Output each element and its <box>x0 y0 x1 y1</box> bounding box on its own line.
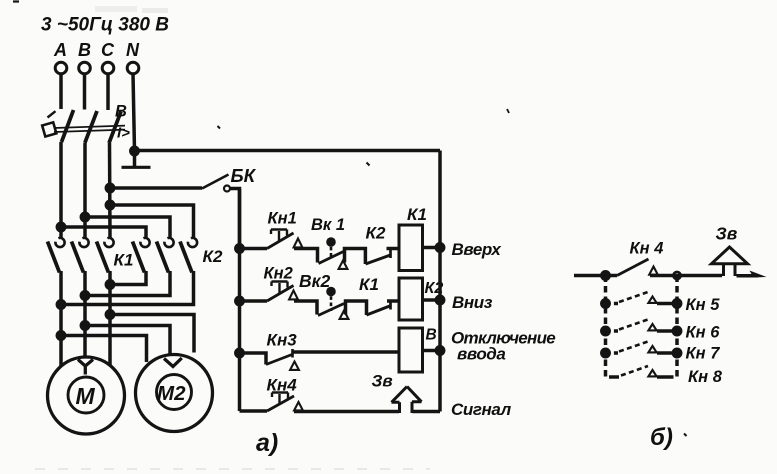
svg-text:К1: К1 <box>407 205 427 224</box>
row4 wire left <box>240 409 268 413</box>
motor M1 outer circle <box>48 357 125 434</box>
svg-text:К1: К1 <box>359 275 379 294</box>
svg-text:3 ~50Гц 380 В: 3 ~50Гц 380 В <box>41 15 169 36</box>
button Kn2 blade <box>267 286 294 302</box>
node dot rail row1 <box>236 245 243 252</box>
row1 wire left <box>240 247 268 251</box>
coil K2 <box>399 278 423 320</box>
wire contact2 down to motor M mid <box>83 271 87 358</box>
label K1 contactor <box>114 251 134 270</box>
wire phase C upper <box>106 74 110 111</box>
section b node dot right <box>673 272 680 279</box>
svg-text:М: М <box>76 383 96 409</box>
svg-text:М2: М2 <box>157 382 186 405</box>
node C label <box>101 40 115 60</box>
svg-text:Зв: Зв <box>372 372 393 391</box>
motor M1 star symbol <box>78 360 93 375</box>
svg-text:БК: БК <box>231 165 257 186</box>
node dot rail r3 <box>436 347 443 354</box>
circuit breaker V blade pole B <box>85 111 97 143</box>
section b node dot left <box>602 272 609 279</box>
limit switch Vk1 head dot <box>326 237 336 247</box>
motor M2 label <box>157 382 186 405</box>
row1 wire mid2 <box>345 249 366 265</box>
node stub B junction dot <box>81 213 88 220</box>
row2 wire to coil K2 <box>387 299 399 303</box>
contactor K1 contact 3 <box>97 238 114 273</box>
coil K1 label <box>407 205 427 224</box>
svg-text:I>: I> <box>117 125 130 142</box>
contactor K1 contact 2 <box>72 238 89 273</box>
section b label Kn7 <box>686 345 721 363</box>
horn Zv label <box>372 372 393 391</box>
limit switch Vk1 triangle <box>339 261 348 269</box>
svg-text:А: А <box>53 40 67 60</box>
contactor K2 contact 5 <box>157 238 174 273</box>
row4 wire horn to rail <box>413 410 441 414</box>
svg-text:Кн 7: Кн 7 <box>686 345 721 363</box>
wire contact1 down to motor M left <box>59 271 63 366</box>
wire contact5 to node C2 <box>85 271 170 296</box>
terminal A <box>55 62 67 74</box>
terminal N <box>127 62 139 74</box>
button Kn1 actuator <box>271 230 287 242</box>
row1 wire to coil K1 <box>387 247 400 251</box>
limit switch Vk2 blade <box>318 304 344 316</box>
switch BK terminal circle <box>224 186 230 192</box>
node dot c1b <box>57 332 64 339</box>
svg-text:К2: К2 <box>366 224 386 243</box>
scan speck top left <box>13 0 19 2</box>
label Vverh <box>452 240 503 259</box>
section b row Kn8 <box>614 366 669 377</box>
node dot c3a <box>106 281 113 288</box>
node A label <box>53 40 67 60</box>
contact K1 break tick <box>389 301 392 310</box>
wire phase A upper <box>59 74 63 110</box>
button Kn2 actuator <box>272 282 288 294</box>
node C to BK junction dot <box>106 184 113 191</box>
svg-text:б): б) <box>650 424 673 451</box>
button Kn1 blade <box>267 233 294 249</box>
limit switch Vk2 triangle <box>340 311 349 319</box>
label V of breaker <box>115 103 127 121</box>
motor M1 inner circle <box>68 377 104 413</box>
svg-text:Зв: Зв <box>716 224 738 244</box>
svg-text:Кн 8: Кн 8 <box>688 368 723 386</box>
contactor K1 contact 1 <box>48 238 65 273</box>
svg-text:В: В <box>115 103 127 121</box>
section b button Kn4 blade <box>617 259 649 276</box>
wire contact3 down to motor M right <box>108 271 112 366</box>
node N junction dot <box>131 147 138 154</box>
wire coil K2 to rail <box>423 298 441 302</box>
wire C to BK switch <box>110 186 202 190</box>
wire coil K1 to rail <box>423 246 441 250</box>
node stub C junction dot <box>106 201 113 208</box>
wire phase B upper <box>83 74 87 110</box>
terminal B <box>79 62 91 74</box>
button Kn4 label <box>267 376 298 395</box>
svg-text:Вверх: Вверх <box>452 240 503 259</box>
button Kn3 blade <box>266 355 292 365</box>
wire coil V to rail <box>423 349 441 353</box>
node stub A junction dot <box>57 223 64 230</box>
svg-text:Кн3: Кн3 <box>267 331 298 350</box>
section b label Kn5 <box>686 296 721 314</box>
svg-text:Кн 6: Кн 6 <box>686 324 721 342</box>
wire stub A to contact 4 <box>61 227 146 238</box>
row1 wire mid1 <box>294 249 318 263</box>
coil K2 label <box>425 280 444 297</box>
label: supply title 3~50Hz 380V <box>41 15 169 36</box>
section b label Kn6 <box>686 324 721 342</box>
scan speck near b) <box>684 434 687 437</box>
wire BK to left rail <box>230 189 240 249</box>
svg-text:В: В <box>426 327 437 344</box>
row3 wire left <box>240 353 267 365</box>
wire phase B lower <box>83 143 87 239</box>
motor M2 outer circle <box>136 355 213 432</box>
svg-text:Кн 5: Кн 5 <box>686 296 721 314</box>
button Kn3 triangle <box>290 362 299 370</box>
label I> of breaker <box>117 125 130 142</box>
horn Zv bell <box>392 387 422 414</box>
section b horn label Zv <box>716 224 738 244</box>
circuit breaker trip hook <box>48 111 56 117</box>
wire neutral N <box>133 74 135 152</box>
svg-text:К2: К2 <box>203 247 223 266</box>
svg-text:Кн2: Кн2 <box>264 265 293 283</box>
button Kn2 fixed triangle <box>289 291 298 300</box>
row2 wire mid2 <box>346 301 367 315</box>
button Kn1 fixed triangle <box>294 239 303 248</box>
circuit breaker latch square <box>42 122 56 136</box>
scan speck near Vverh <box>507 109 509 113</box>
section b right rail dashed <box>669 276 677 378</box>
section b top wire mid <box>650 274 722 278</box>
wire stub C to contact 6 <box>110 205 194 238</box>
label Otklyuchenie <box>451 329 555 348</box>
section b arrow head <box>750 271 767 278</box>
limit switch Vk1 blade <box>319 251 345 264</box>
node dot c2b <box>81 322 88 329</box>
wire stub B to contact 5 <box>85 217 170 238</box>
right control rail <box>438 151 442 412</box>
left control rail <box>238 189 242 411</box>
button Kn1 label <box>268 210 297 228</box>
contactor K2 contact 6 <box>180 238 197 273</box>
section b row Kn7 <box>602 342 681 357</box>
section b button Kn4 label <box>630 240 664 258</box>
button Kn4 actuator <box>272 393 288 405</box>
scan speck mid <box>218 126 221 129</box>
svg-text:N: N <box>126 40 140 60</box>
node dot c3b <box>106 311 113 318</box>
circuit breaker linkage bar <box>54 126 125 132</box>
coil V label <box>426 327 437 344</box>
label a) <box>256 429 278 457</box>
node B label <box>78 40 91 60</box>
label BK <box>231 165 257 186</box>
limit switch Vk1 stem <box>330 247 333 259</box>
svg-text:В: В <box>78 40 91 60</box>
wire top rail to control circuit <box>135 149 441 153</box>
contact K2 break blade <box>366 255 391 264</box>
wire contact4 to node C3 <box>110 271 146 285</box>
row2 wire mid1 <box>294 301 317 315</box>
motor M1 label <box>76 383 96 409</box>
wire node c1b to motor M2 left <box>61 336 147 363</box>
contact K2 break tick <box>389 249 392 258</box>
svg-text:а): а) <box>256 429 278 457</box>
label Signal <box>451 400 512 419</box>
ground stub of N <box>133 151 137 166</box>
section b top wire left <box>574 274 617 278</box>
section b horn Zv <box>712 247 748 264</box>
button Kn3 label <box>267 331 298 350</box>
wire phase C lower <box>108 143 112 238</box>
scan speck left of Vk1 <box>367 163 370 166</box>
coil V <box>399 328 423 372</box>
node dot c2a <box>81 292 88 299</box>
node dot rail row2 <box>236 297 243 304</box>
node dot rail r1 <box>436 244 443 251</box>
circuit breaker V blade pole A <box>62 110 74 142</box>
svg-text:Вниз: Вниз <box>452 293 493 312</box>
row2 wire left <box>240 299 268 303</box>
label vvoda <box>457 345 505 364</box>
contactor K2 contact 4 <box>133 238 150 273</box>
svg-text:Вк2: Вк2 <box>299 271 331 291</box>
contact K2 label <box>366 224 386 243</box>
switch BK blade <box>202 175 229 189</box>
limit switch Vk2 label <box>299 271 331 291</box>
button Kn4 fixed triangle <box>294 402 303 410</box>
section b label Kn8 <box>688 368 723 386</box>
limit switch Vk2 head dot <box>326 287 336 297</box>
limit switch Vk1 label <box>311 216 345 234</box>
contact K1 label row2 <box>359 275 379 294</box>
svg-text:Кн4: Кн4 <box>267 376 298 395</box>
ground bar <box>122 166 151 169</box>
scan smudge above title 1 <box>95 6 137 12</box>
circuit breaker V blade pole C <box>109 112 121 144</box>
svg-text:ввода: ввода <box>457 345 505 364</box>
section b row Kn6 <box>602 320 681 335</box>
section b top wire right with arrow <box>737 274 759 278</box>
label K2 contactor <box>203 247 223 266</box>
svg-text:К1: К1 <box>114 251 134 270</box>
node N label <box>126 40 140 60</box>
wire contact6 to node C1 <box>61 271 194 305</box>
motor M2 inner circle <box>157 375 192 410</box>
motor M2 vee symbol <box>164 358 182 367</box>
button Kn2 label <box>264 265 293 283</box>
limit switch Vk2 stem <box>330 296 333 311</box>
svg-text:Кн 4: Кн 4 <box>630 240 664 258</box>
section b left rail dashed <box>606 276 615 378</box>
wire phase A lower <box>59 142 63 238</box>
scan smudge above title 2 <box>142 8 168 13</box>
section b row Kn5 <box>602 292 681 307</box>
node dot rail row3 <box>236 349 243 356</box>
svg-text:Сигнал: Сигнал <box>451 400 512 419</box>
row4 wire to horn <box>294 410 399 414</box>
button Kn3 break tick <box>291 349 294 358</box>
node dot c1a <box>57 301 64 308</box>
svg-text:С: С <box>101 40 115 60</box>
node dot rail r2 <box>436 296 443 303</box>
row3 wire to coil V <box>293 350 400 354</box>
svg-text:Вк 1: Вк 1 <box>311 216 345 234</box>
label Vniz <box>452 293 493 312</box>
scan smudge bottom <box>35 468 430 470</box>
label b) <box>650 424 673 451</box>
terminal C <box>102 62 114 74</box>
coil K1 <box>399 225 423 271</box>
wire node c3b to motor M2 right <box>110 315 194 353</box>
svg-text:Кн1: Кн1 <box>268 210 297 228</box>
button Kn4 blade <box>267 396 294 411</box>
contact K1 break blade <box>367 306 392 316</box>
wire node c2b to motor M2 mid <box>85 326 170 357</box>
section b button Kn4 triangle <box>649 267 658 275</box>
